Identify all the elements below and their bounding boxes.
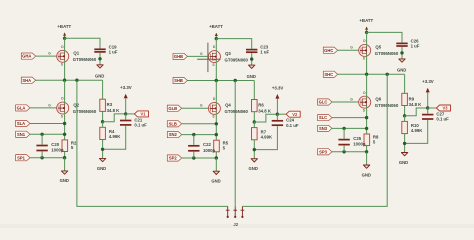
wire +3.3V to V1 node (125, 98, 127, 114)
svg-text:GT095N060: GT095N060 (375, 51, 399, 56)
svg-text:0.1 uF: 0.1 uF (436, 117, 449, 122)
svg-text:G: G (48, 103, 51, 107)
net flag GHB (173, 53, 187, 59)
transistor Q6 GT095N060 N-channel MOSFET (359, 96, 371, 108)
wire C27 to ground node (405, 120, 428, 143)
transistor Q5 GT095N060 N-channel MOSFET (359, 44, 371, 56)
node R10/C27 ground junction (403, 142, 406, 145)
net flag SLA (16, 120, 30, 126)
wire SHC to drain of Q6 (366, 74, 368, 96)
svg-text:R3: R3 (107, 102, 113, 107)
supply +3.3V arrow (B) (275, 94, 279, 99)
node SP1 junction at R2 (63, 156, 66, 159)
wire source of Q3 to phase node B (215, 63, 217, 81)
resistor R5 5 (214, 140, 220, 152)
wire C26 to GND (401, 47, 403, 59)
capacitor C23 1 uF decoupling (246, 50, 257, 53)
svg-text:GLA: GLA (17, 106, 26, 111)
wire divider node to V2 node (254, 114, 277, 122)
wire phase A output to J2 pin 1 (77, 80, 228, 206)
wire SP1 (30, 157, 65, 159)
svg-text:GHB: GHB (174, 54, 183, 59)
wire SP3 (332, 151, 367, 153)
svg-text:GHA: GHA (22, 54, 31, 59)
svg-text:0.1 uF: 0.1 uF (134, 123, 147, 128)
wire +3.3V to V2 node (276, 99, 278, 115)
wire GLA to gate of Q2 (30, 107, 58, 109)
svg-text:SN1: SN1 (17, 132, 26, 137)
svg-text:GHC: GHC (324, 48, 333, 53)
ground below R4 (99, 158, 105, 161)
wire +BATT rail to C26 (C) (367, 32, 402, 42)
wire SN1 (30, 133, 65, 135)
wire GHA to gate of Q1 (36, 55, 58, 57)
ground below R10 (401, 153, 407, 156)
wire SHB to drain of Q4 (215, 81, 217, 103)
svg-text:V2: V2 (292, 112, 298, 117)
wire C25 to SP3 (343, 146, 345, 152)
svg-text:1 uF: 1 uF (411, 44, 420, 49)
svg-text:+BATT: +BATT (209, 24, 223, 29)
connector J2 pin 3 (241, 206, 245, 218)
node divider junction R3/R4 (101, 120, 104, 123)
svg-text:R9: R9 (409, 96, 415, 101)
wire SHA to R3 (102, 80, 104, 99)
net flag SHB (173, 77, 187, 83)
wire R3 to divider node (102, 111, 104, 121)
wire GHC to gate of Q5 (338, 49, 360, 51)
wire phase node SHA (36, 79, 103, 81)
wire GHB to gate of Q3 (187, 55, 209, 57)
svg-text:1 uF: 1 uF (260, 50, 269, 55)
resistor R8 5 (364, 134, 370, 146)
resistor R6 34.8 K (252, 100, 258, 112)
svg-text:SLA: SLA (17, 121, 25, 126)
wire +BATT node to drain of Q1 (64, 38, 66, 50)
node SHC junction at phase output (386, 73, 389, 76)
node SHB junction at half-bridge (215, 79, 218, 82)
wire phase B output to J2 pin 2 (234, 81, 236, 207)
wire +BATT to node (B) (215, 36, 217, 39)
supply +3.3V arrow (C) (426, 88, 430, 93)
wire R10 to ground (404, 134, 406, 153)
node SN1 junction at R2 (63, 133, 66, 136)
svg-text:SHB: SHB (174, 78, 183, 83)
svg-text:SLC: SLC (319, 115, 327, 120)
wire C19 to GND (99, 53, 101, 65)
wire R4 to ground (102, 140, 104, 159)
transistor Q3 GT095N060 N-channel MOSFET (208, 51, 220, 63)
node SN3 junction at C25 (342, 127, 345, 130)
resistor R4 4.99K (100, 127, 106, 139)
svg-text:C25: C25 (353, 136, 361, 141)
ground below R2 (61, 171, 67, 174)
svg-text:GND: GND (249, 166, 258, 171)
svg-text:GT095N060: GT095N060 (225, 109, 249, 114)
wire divider node to V1 node (103, 114, 126, 122)
net flag GLC (318, 99, 332, 105)
svg-text:SHA: SHA (22, 78, 31, 83)
net flag SN3 (318, 125, 332, 131)
wire SN1 to C20 (41, 134, 43, 144)
wire C23 to GND (251, 53, 253, 65)
wire source of Q1 to phase node A (64, 63, 66, 81)
wire V1 node to C21 (125, 114, 127, 120)
wire to probe flag V2 (277, 113, 286, 115)
capacitor C21 0.1 uF (120, 121, 131, 125)
svg-text:GND: GND (247, 74, 256, 79)
probe flag V1 (134, 111, 148, 117)
resistor R3 34.8 K (100, 99, 106, 111)
wire V2 node to C24 (276, 114, 278, 120)
wire +BATT rail to C23 (B) (216, 39, 251, 49)
node SP2 junction at C22 (192, 156, 195, 159)
wire SLB (182, 123, 217, 125)
ground below R5 (213, 171, 219, 174)
wire SN2 to C22 (193, 135, 195, 145)
net flag SP2 (167, 155, 181, 161)
svg-text:34.8 K: 34.8 K (409, 102, 423, 107)
svg-text:GT095N060: GT095N060 (73, 57, 97, 62)
wire R7 to ground (253, 140, 255, 159)
svg-text:1000p: 1000p (203, 148, 216, 153)
svg-text:4.99K: 4.99K (109, 134, 121, 139)
svg-text:4.99K: 4.99K (261, 134, 273, 139)
svg-text:SN3: SN3 (319, 126, 328, 131)
wire C20 to SP1 (41, 152, 43, 158)
svg-text:C21: C21 (134, 117, 142, 122)
wire SN3 to C25 (343, 128, 345, 138)
transistor Q4 GT095N060 N-channel MOSFET (208, 102, 220, 114)
node divider junction R6/R7 (253, 120, 256, 123)
net flag SHC (323, 71, 337, 77)
net flag SP1 (16, 155, 30, 161)
resistor R10 4.99K (402, 121, 408, 133)
svg-text:GND: GND (97, 166, 106, 171)
wire SP2 to ground (215, 158, 217, 171)
wire SLC (332, 117, 367, 119)
net flag SLC (318, 115, 332, 121)
supply +BATT arrow (B) (215, 33, 218, 36)
node SN3 junction at R8 (365, 127, 368, 130)
net flag SLB (167, 121, 181, 127)
svg-text:G: G (350, 46, 353, 50)
node SP1 junction at C20 (40, 156, 43, 159)
wire phase C output to J2 pin 3 (242, 74, 387, 206)
node SLA junction (63, 122, 66, 125)
svg-text:GND: GND (362, 172, 371, 177)
wire SP1 to ground (64, 158, 66, 171)
svg-text:+3.3V: +3.3V (422, 79, 434, 84)
svg-text:SHC: SHC (324, 72, 333, 77)
wire V3 node to C27 (427, 108, 429, 114)
resistor R2 5 (62, 140, 68, 152)
svg-text:Q5: Q5 (375, 45, 381, 50)
node divider junction R9/R10 (403, 114, 406, 117)
svg-text:+BATT: +BATT (359, 18, 373, 23)
svg-text:C22: C22 (203, 142, 211, 147)
svg-text:SP1: SP1 (17, 155, 26, 160)
node +BATT junction (C) (365, 31, 368, 34)
node C23 net dot (250, 57, 253, 60)
ground below C26 (399, 59, 405, 62)
cursor crosshair near Q3 (197, 43, 220, 73)
node SP2 junction at R5 (215, 156, 218, 159)
svg-text:+3.3V: +3.3V (120, 85, 132, 90)
svg-text:Q4: Q4 (225, 103, 231, 108)
node V3 junction (426, 106, 429, 109)
ground below R8 (363, 165, 369, 168)
connector J2 pin 2 (233, 206, 237, 218)
node SHA junction at half-bridge (63, 79, 66, 82)
svg-text:+3.3V: +3.3V (272, 85, 284, 90)
supply +3.3V arrow (A) (124, 94, 128, 99)
svg-text:Q6: Q6 (375, 97, 381, 102)
probe flag V2 (286, 111, 300, 117)
wire phase node SHB (187, 80, 254, 82)
svg-text:GLC: GLC (319, 100, 328, 105)
node SHC junction at half-bridge (365, 73, 368, 76)
svg-text:Q1: Q1 (73, 51, 79, 56)
svg-text:Q3: Q3 (225, 51, 231, 56)
node SLB junction (215, 122, 218, 125)
node +BATT junction (B) (215, 37, 218, 40)
svg-text:R6: R6 (258, 103, 264, 108)
wire SLA (30, 123, 65, 125)
capacitor C24 0.1 uF (272, 121, 283, 125)
svg-text:C20: C20 (51, 142, 59, 147)
node C19 net dot (98, 57, 101, 60)
wire C21 to ground node (103, 126, 126, 150)
wire to probe flag V1 (126, 113, 135, 115)
capacitor C25 1000p (338, 140, 349, 145)
wire R9 to divider node (404, 106, 406, 116)
wire SHA to drain of Q2 (64, 80, 66, 102)
svg-text:GND: GND (211, 179, 220, 184)
net flag SHA (21, 77, 35, 83)
wire R6 to divider node (253, 112, 255, 122)
capacitor C26 1 uF decoupling (396, 43, 407, 46)
svg-text:1000p: 1000p (353, 142, 366, 147)
node SHB junction at phase output (234, 79, 237, 82)
svg-text:GND: GND (95, 74, 104, 79)
svg-text:34.8 K: 34.8 K (107, 108, 121, 113)
wire SP3 to ground (366, 152, 368, 165)
supply +BATT arrow (A) (63, 32, 66, 35)
wire SN3 (332, 127, 367, 129)
ground below C19 (97, 65, 103, 68)
wire divider node to R4 (102, 122, 104, 128)
node SN1 junction at C20 (40, 133, 43, 136)
svg-text:G: G (48, 52, 51, 56)
net flag GLA (16, 105, 30, 111)
wire +3.3V to V3 node (427, 92, 429, 108)
supply +BATT arrow (C) (365, 27, 368, 30)
wire +BATT rail to C19 (A) (65, 38, 100, 48)
wire divider node to R10 (404, 116, 406, 122)
wire +BATT node to drain of Q5 (366, 32, 368, 44)
wire +BATT to node (A) (64, 36, 66, 39)
wire GLC to gate of Q6 (332, 101, 360, 103)
node V2 junction (276, 113, 279, 116)
wire SHC to R9 (404, 74, 406, 93)
connector J2 pin 1 (226, 206, 230, 218)
svg-text:SP2: SP2 (169, 156, 178, 161)
svg-text:GLB: GLB (168, 106, 177, 111)
capacitor C27 0.1 uF (422, 115, 433, 119)
capacitor C19 1 uF decoupling (94, 49, 105, 52)
transistor Q1 GT095N060 N-channel MOSFET (57, 50, 69, 62)
wire SP2 (182, 157, 217, 159)
ground below R7 (251, 159, 257, 162)
wire source of Q5 to phase node C (366, 57, 368, 75)
svg-text:+BATT: +BATT (57, 24, 71, 29)
capacitor C20 1000p (36, 146, 47, 151)
svg-text:G: G (350, 97, 353, 101)
svg-text:V1: V1 (141, 112, 147, 117)
svg-text:SN2: SN2 (169, 132, 178, 137)
probe flag V3 (436, 105, 450, 111)
node SP3 junction at R8 (365, 150, 368, 153)
wire divider node to R7 (253, 122, 255, 128)
net flag SP3 (318, 149, 332, 155)
node SN2 junction at R5 (215, 133, 218, 136)
node SP3 junction at C25 (342, 150, 345, 153)
wire divider node to V3 node (405, 108, 428, 116)
node SHA junction at phase output (75, 79, 78, 82)
wire SHB to R6 (253, 81, 255, 100)
svg-text:GND: GND (60, 178, 69, 183)
svg-text:J2: J2 (233, 222, 238, 227)
wire SN2 (182, 134, 217, 136)
svg-text:SLB: SLB (169, 121, 177, 126)
wire GLB to gate of Q4 (182, 107, 210, 109)
net flag SN1 (16, 131, 30, 137)
node V1 junction (124, 112, 127, 115)
wire source of Q4 down to SP2 (215, 115, 217, 158)
wire phase node SHC (338, 73, 405, 75)
capacitor C22 1000p (188, 146, 199, 151)
net flag GHA (21, 53, 35, 59)
svg-text:V3: V3 (443, 106, 449, 111)
svg-text:1000p: 1000p (51, 148, 64, 153)
net flag GLB (167, 105, 181, 111)
svg-text:C27: C27 (436, 111, 444, 116)
wire +BATT node to drain of Q3 (215, 39, 217, 51)
node R4/C21 ground junction (101, 148, 104, 151)
svg-text:34.8 K: 34.8 K (258, 108, 272, 113)
wire C22 to SP2 (193, 152, 195, 158)
resistor R9 34.8 K (402, 93, 408, 105)
ground below C23 (249, 65, 255, 68)
svg-text:0.1 uF: 0.1 uF (286, 123, 299, 128)
svg-text:SP3: SP3 (319, 149, 328, 154)
wire C24 to ground node (254, 126, 277, 150)
svg-text:1 uF: 1 uF (109, 49, 118, 54)
svg-text:G: G (200, 52, 203, 56)
svg-text:GND: GND (397, 68, 406, 73)
wire source of Q6 down to SP3 (366, 108, 368, 151)
svg-text:4.99K: 4.99K (411, 128, 423, 133)
node SLC junction (365, 116, 368, 119)
resistor R7 4.99K (252, 128, 258, 140)
wire +BATT to node (C) (366, 30, 368, 33)
wire source of Q2 down to SP1 (64, 114, 66, 157)
node SN2 junction at C22 (192, 133, 195, 136)
transistor Q2 GT095N060 N-channel MOSFET (57, 102, 69, 114)
svg-text:G: G (200, 104, 203, 108)
svg-text:C24: C24 (286, 118, 294, 123)
wire to probe flag V3 (428, 107, 437, 109)
net flag SN2 (167, 132, 181, 138)
node +BATT junction (A) (63, 37, 66, 40)
node C26 net dot (400, 51, 403, 54)
node R7/C24 ground junction (253, 148, 256, 151)
svg-text:GND: GND (399, 160, 408, 165)
svg-text:GT095N060: GT095N060 (225, 57, 249, 62)
net flag GHC (323, 47, 337, 53)
